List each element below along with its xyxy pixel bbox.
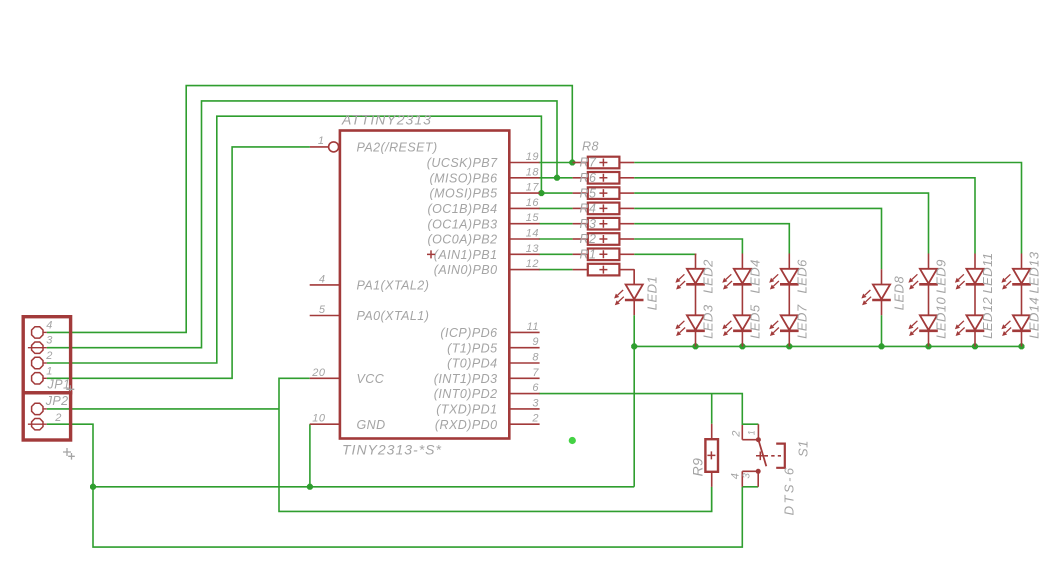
svg-text:6: 6 — [532, 382, 539, 394]
wire GND bus down to bottom rail — [93, 487, 742, 547]
wire IC pin 16 to resistor — [539, 207, 573, 209]
JP2 pin 1 — [43, 408, 46, 410]
LED LED6 — [769, 269, 798, 290]
LED LED3 cathode stub — [695, 331, 697, 347]
wire GND bus — [93, 486, 634, 488]
svg-text:(AIN0)PB0: (AIN0)PB0 — [434, 263, 498, 277]
wire IC pin 14 to resistor — [539, 238, 573, 240]
IC pin 16 (OC1B)PB4 — [509, 207, 539, 209]
S1 pins 3-4 tie bar — [742, 470, 758, 472]
wire LED2 cathode to LED3 anode — [695, 284, 697, 315]
resistor R3 — [573, 217, 635, 231]
wire resistor row to LED2 column — [634, 253, 695, 256]
svg-text:5: 5 — [319, 304, 326, 316]
IC pin 1 PA2(/RESET) stub and bubble — [310, 146, 329, 148]
S1 button bracket — [776, 444, 785, 468]
wire resistor row to LED11 column — [634, 178, 975, 254]
svg-text:LED5: LED5 — [748, 304, 763, 339]
svg-text:LED8: LED8 — [892, 276, 907, 311]
svg-text:(OC1A)PB3: (OC1A)PB3 — [427, 217, 497, 231]
LED LED1 — [614, 285, 643, 306]
svg-text:1: 1 — [318, 135, 325, 147]
JP2 pin 2 — [28, 423, 47, 425]
svg-text:(T1)PD5: (T1)PD5 — [447, 341, 497, 355]
svg-text:20: 20 — [311, 367, 326, 379]
JP1 origin cross — [66, 385, 74, 393]
svg-text:LED1: LED1 — [644, 276, 659, 310]
IC pin 3 (TXD)PD1 — [509, 408, 539, 410]
svg-text:LED14: LED14 — [1027, 297, 1042, 339]
IC pin 8 (T0)PD4 — [509, 362, 539, 364]
LED LED7 — [769, 315, 798, 336]
wire IC pin 15 to resistor — [539, 223, 573, 225]
svg-text:15: 15 — [526, 212, 540, 224]
S1 pin 1 — [757, 424, 759, 440]
S1 actuator — [758, 440, 766, 467]
svg-text:2: 2 — [531, 413, 539, 425]
connector JP1 — [23, 317, 74, 394]
wire LED bus down to GND bus — [633, 346, 635, 486]
resistor R8 — [573, 264, 635, 276]
svg-text:12: 12 — [526, 258, 539, 270]
wire IC pin 18 to resistor — [539, 177, 573, 179]
junction dots on PB7/PB6/PB5 nets — [569, 160, 575, 166]
resistor R1 — [573, 248, 635, 262]
LED LED12 — [955, 315, 984, 336]
LED LED8 cathode stub — [881, 300, 883, 315]
wire LED8 cathode to bus — [881, 315, 883, 346]
JP1 pin 4 — [43, 331, 46, 333]
svg-text:LED2: LED2 — [701, 259, 716, 294]
wire LED1 cathode to bus — [633, 315, 635, 346]
wire resistor row12 to LED1 (dark red) — [633, 270, 635, 285]
S1 origin cross — [756, 452, 765, 461]
svg-text:ATTINY2313: ATTINY2313 — [341, 112, 432, 128]
svg-text:JP2: JP2 — [45, 394, 69, 408]
svg-text:S1: S1 — [795, 440, 810, 457]
wire resistor row to LED6 column — [634, 224, 789, 254]
svg-text:(MISO)PB6: (MISO)PB6 — [430, 171, 498, 185]
svg-text:LED9: LED9 — [934, 259, 949, 293]
svg-text:(INT1)PD3: (INT1)PD3 — [434, 372, 498, 386]
wire LED4 cathode to LED5 anode — [741, 284, 743, 315]
LED LED1 anode stub — [633, 269, 635, 284]
wire JP2.2 to GND bus — [47, 424, 93, 487]
JP1 pin 3 — [28, 347, 47, 349]
S1 pin 3 — [757, 471, 759, 487]
stray bright green dot — [569, 437, 576, 444]
IC pin 4 PA1(XTAL2) — [310, 284, 340, 286]
LED LED14 — [1001, 315, 1030, 336]
IC pin 18 (MISO)PB6 — [509, 177, 539, 179]
IC pin 12 (AIN0)PB0 — [509, 269, 539, 271]
svg-text:(TXD)PD1: (TXD)PD1 — [436, 403, 497, 417]
wire LED13 cathode to LED14 anode — [1021, 284, 1023, 315]
switch S1 (DTS-6) — [729, 424, 810, 515]
LED LED13 anode stub — [1021, 254, 1023, 269]
IC pin 2 (RXD)PD0 — [509, 423, 539, 425]
svg-text:(RXD)PD0: (RXD)PD0 — [435, 418, 498, 432]
svg-text:7: 7 — [532, 367, 539, 379]
IC pin 11 (ICP)PD6 — [509, 331, 539, 333]
svg-text:10: 10 — [312, 413, 326, 425]
svg-text:PA2(/RESET): PA2(/RESET) — [357, 141, 438, 155]
svg-text:VCC: VCC — [357, 372, 385, 386]
wire IC pin6 INT0 to R9 top and switch — [539, 394, 759, 425]
JP2 origin crosses — [63, 448, 71, 456]
IC pin 17 (MOSI)PB5 — [509, 192, 539, 194]
wire VCC net: IC pin20 / JP2.1 / R9 bottom — [279, 378, 712, 511]
svg-text:R7: R7 — [580, 156, 597, 170]
svg-text:17: 17 — [526, 182, 540, 194]
svg-text:13: 13 — [526, 243, 540, 255]
svg-text:TINY2313-*S*: TINY2313-*S* — [342, 442, 442, 458]
LED LED9 — [908, 269, 937, 290]
IC pin 13 (AIN1)PB1 — [509, 253, 539, 255]
svg-text:PA1(XTAL2): PA1(XTAL2) — [357, 279, 430, 293]
wire IC pin 19 to resistor — [539, 162, 573, 164]
LED LED11 anode stub — [974, 254, 976, 269]
svg-text:2: 2 — [54, 412, 62, 424]
junction dots on GND bus — [90, 484, 96, 490]
svg-text:4: 4 — [46, 319, 53, 331]
resistor R6 — [573, 171, 635, 185]
LED LED7 cathode stub — [788, 331, 790, 347]
LED LED12 cathode stub — [974, 331, 976, 347]
svg-text:1: 1 — [746, 430, 756, 435]
svg-text:R9: R9 — [689, 458, 705, 477]
wire LED11 cathode to LED12 anode — [974, 284, 976, 315]
connector JP2 — [23, 393, 75, 460]
LED LED6 anode stub — [788, 254, 790, 269]
svg-text:2: 2 — [730, 430, 742, 438]
IC pin 19 (UCSK)PB7 — [509, 162, 539, 164]
svg-text:R5: R5 — [580, 186, 597, 200]
LED LED11 — [955, 269, 984, 290]
wire IC pin 17 to resistor — [539, 192, 573, 194]
resistor R7 — [573, 156, 635, 170]
wire LED9 cathode to LED10 anode — [928, 284, 930, 315]
IC pin 14 (OC0A)PB2 — [509, 238, 539, 240]
resistor R5 — [573, 186, 635, 200]
LED LED9 anode stub — [928, 254, 930, 269]
svg-text:8: 8 — [532, 352, 539, 364]
LED LED4 — [722, 269, 751, 290]
JP1 pin 1 — [43, 377, 46, 379]
LED LED2 anode stub — [695, 254, 697, 269]
IC pin 15 (OC1A)PB3 — [509, 223, 539, 225]
svg-text:3: 3 — [532, 397, 539, 409]
svg-text:1: 1 — [46, 365, 53, 377]
LED LED1 cathode stub — [633, 300, 635, 315]
wire JP1.1 to IC pin1 /RESET — [47, 147, 310, 378]
wire LED6 cathode to LED7 anode — [788, 284, 790, 315]
LED LED8 — [861, 285, 890, 306]
resistor R4 — [573, 202, 635, 216]
LED LED2 — [675, 269, 704, 290]
junction dots on LED bus — [631, 343, 637, 349]
wire JP1.4 to R7 node (PB7 net) — [47, 86, 573, 333]
svg-text:(AIN1)PB1: (AIN1)PB1 — [434, 248, 498, 262]
wire IC pin 12 to resistor — [539, 269, 573, 271]
svg-text:LED10: LED10 — [934, 296, 949, 338]
S1 pins 1-2 tie bar — [742, 439, 758, 441]
LED LED3 — [675, 315, 704, 336]
svg-text:(UCSK)PB7: (UCSK)PB7 — [427, 156, 498, 170]
wire resistor row to LED13 column — [634, 163, 1021, 254]
resistor R9 — [689, 424, 718, 487]
LED LED10 — [908, 315, 937, 336]
wire resistor row to LED8 column — [634, 208, 881, 269]
svg-text:(MOSI)PB5: (MOSI)PB5 — [430, 187, 498, 201]
LED LED5 — [722, 315, 751, 336]
svg-text:18: 18 — [526, 166, 540, 178]
svg-text:R3: R3 — [580, 217, 597, 231]
svg-text:GND: GND — [357, 418, 386, 432]
LED LED5 cathode stub — [741, 331, 743, 347]
svg-text:LED13: LED13 — [1027, 251, 1042, 293]
S1 pin 4 — [741, 471, 743, 487]
resistor R2 — [573, 232, 635, 246]
svg-text:DTS-6: DTS-6 — [782, 465, 797, 515]
svg-text:PA0(XTAL1): PA0(XTAL1) — [357, 309, 430, 323]
svg-text:14: 14 — [526, 228, 539, 240]
svg-text:LED6: LED6 — [795, 259, 810, 294]
svg-text:3: 3 — [741, 473, 752, 479]
svg-text:LED12: LED12 — [980, 296, 995, 338]
LED LED13 — [1001, 269, 1030, 290]
IC pin 7 (INT1)PD3 — [509, 377, 539, 379]
wire IC GND pin to GND bus — [309, 424, 311, 487]
svg-text:R1: R1 — [580, 248, 597, 262]
IC origin cross — [427, 250, 435, 258]
S1 plunger dashed link — [765, 455, 781, 457]
IC pin 9 (T1)PD5 — [509, 347, 539, 349]
svg-text:LED3: LED3 — [701, 304, 716, 339]
svg-text:R2: R2 — [580, 232, 597, 246]
S1 pin 2 — [741, 425, 743, 440]
svg-text:LED7: LED7 — [795, 304, 810, 339]
svg-text:(INT0)PD2: (INT0)PD2 — [434, 387, 498, 401]
svg-text:(OC0A)PB2: (OC0A)PB2 — [427, 233, 497, 247]
wire IC pin 13 to resistor — [539, 253, 573, 255]
svg-text:(ICP)PD6: (ICP)PD6 — [440, 326, 497, 340]
LED LED14 cathode stub — [1021, 331, 1023, 347]
svg-text:R8: R8 — [582, 139, 599, 153]
IC U1 ATTINY2313 body — [340, 131, 509, 439]
svg-text:R6: R6 — [580, 171, 597, 185]
IC pin 6 (INT0)PD2 — [509, 393, 539, 395]
svg-text:R4: R4 — [580, 202, 597, 216]
JP1 pin 2 — [43, 362, 46, 364]
svg-text:4: 4 — [319, 273, 326, 285]
svg-text:LED4: LED4 — [748, 259, 763, 293]
svg-text:11: 11 — [527, 321, 539, 333]
svg-text:(T0)PD4: (T0)PD4 — [447, 357, 497, 371]
wire R9 bottom green — [711, 487, 713, 512]
wire resistor row to LED4 column — [634, 239, 742, 254]
IC pin 5 PA0(XTAL1) — [310, 315, 340, 317]
svg-text:LED11: LED11 — [980, 252, 995, 293]
svg-text:16: 16 — [526, 197, 540, 209]
wire JP1.3 to R6 node (PB6 net) — [47, 101, 557, 348]
IC pin 10 GND — [310, 423, 340, 425]
svg-text:19: 19 — [526, 151, 539, 163]
wire switch lower pins to GND — [742, 486, 758, 488]
LED LED8 anode stub — [881, 269, 883, 284]
svg-text:4: 4 — [729, 473, 741, 480]
svg-text:2: 2 — [45, 350, 53, 362]
wire JP1.2 to R5 node (PB5 net) — [47, 116, 542, 363]
svg-text:9: 9 — [532, 336, 539, 348]
LED LED10 cathode stub — [928, 331, 930, 347]
wire LED cathode bus — [634, 345, 1021, 347]
wire resistor row to LED9 column — [634, 193, 928, 253]
wire JP2.1 to VCC vertical — [47, 408, 279, 410]
IC pin 20 VCC — [310, 377, 340, 379]
svg-text:(OC1B)PB4: (OC1B)PB4 — [427, 202, 497, 216]
LED LED4 anode stub — [741, 254, 743, 269]
wire R9 top stub green — [711, 394, 713, 424]
svg-text:3: 3 — [46, 335, 53, 347]
